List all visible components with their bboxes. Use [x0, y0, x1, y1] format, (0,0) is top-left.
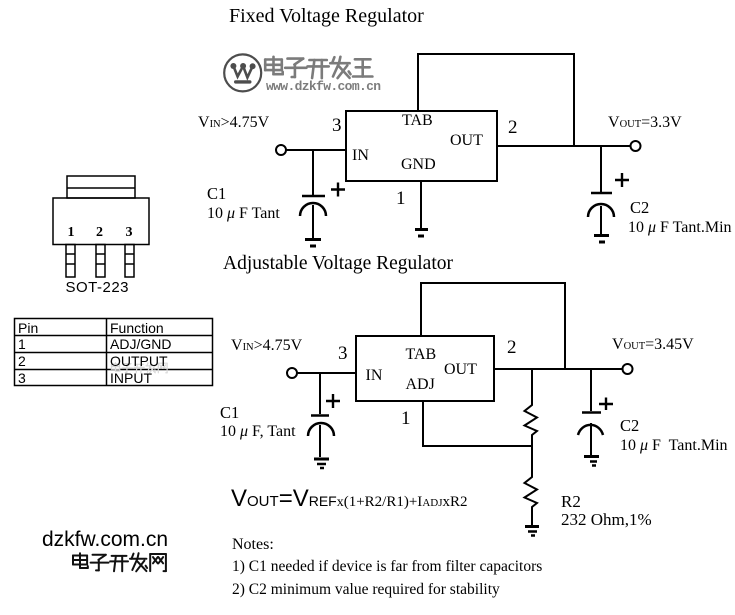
capacitor C2 (fixed) plus	[615, 173, 629, 187]
note 1	[232, 559, 542, 575]
SOT-223 pin 2 lead	[96, 245, 105, 278]
logo url www.dzkfw.com.cn	[266, 80, 380, 93]
formula VOUT	[231, 487, 468, 511]
capacitor C2 (adj) lower stem	[590, 423, 592, 455]
capacitor C1 (fixed) stem	[312, 150, 314, 195]
wire IN input (fixed)	[286, 149, 346, 151]
capacitor C2 (adj) plus	[599, 398, 613, 411]
pin table grid	[15, 319, 213, 386]
notes heading	[232, 537, 274, 553]
pin label 3 (adj)	[338, 344, 348, 363]
node VOUT terminal (adj)	[623, 364, 633, 374]
label C1 (fixed)	[207, 186, 226, 203]
regulator U1 (fixed) body	[346, 111, 497, 181]
label OUT (fixed)	[450, 133, 483, 149]
label VIN (adj)	[231, 338, 302, 354]
faint watermark in table	[112, 363, 168, 373]
wire ADJ pin 1 (adj)	[423, 401, 532, 446]
capacitor C1 (fixed) plus	[331, 183, 345, 197]
label VIN (fixed)	[198, 115, 269, 131]
table header Pin	[18, 321, 38, 335]
pin label 1 (fixed)	[396, 189, 406, 208]
table cell 2	[18, 354, 26, 368]
ground below C2 (fixed)	[594, 234, 609, 237]
capacitor C2 (fixed) plate	[591, 192, 612, 195]
wire IN input (adj)	[297, 372, 357, 374]
capacitor C2 (adj) stem	[590, 369, 592, 411]
node VOUT terminal (fixed)	[631, 141, 641, 151]
capacitor C1 (fixed) lower stem	[312, 205, 314, 238]
wire TAB to OUT (adj)	[421, 283, 565, 369]
wire GND pin 1 (fixed)	[420, 181, 422, 228]
value C2 (adj)	[620, 438, 728, 454]
footer dzkfw.com.cn	[42, 529, 168, 550]
label GND (fixed)	[401, 157, 436, 173]
label R2	[561, 493, 581, 510]
title Fixed Voltage Regulator	[229, 6, 424, 26]
capacitor C2 (adj) arc plate	[578, 425, 603, 435]
logo circle	[224, 54, 261, 91]
value C2 (fixed)	[628, 220, 732, 236]
table cell OUTPUT	[110, 354, 168, 368]
regulator U2 (adjustable) body	[356, 336, 494, 401]
label VOUT (fixed)	[608, 115, 682, 131]
value C1 (adj)	[220, 424, 296, 440]
SOT pin number 2	[96, 226, 103, 240]
wire OUT to terminal (adj)	[494, 368, 623, 370]
SOT-223 package tab	[67, 176, 135, 198]
capacitor C1 (adj) plate	[311, 414, 329, 417]
table cell INPUT	[110, 371, 152, 385]
value R2	[561, 511, 652, 528]
capacitor C2 (fixed) stem	[600, 146, 602, 192]
capacitor C2 (fixed) lower stem	[600, 206, 602, 234]
label C2 (fixed)	[630, 200, 649, 217]
node VIN terminal (adj)	[287, 368, 297, 378]
label SOT-223	[66, 280, 130, 295]
ground at GND pin (fixed)	[415, 228, 428, 231]
SOT pin number 1	[68, 226, 75, 240]
node VIN terminal (fixed)	[276, 145, 286, 155]
capacitor C1 (adj) lower stem	[319, 425, 321, 457]
table header Function	[110, 321, 164, 335]
ground below C1 (fixed)	[305, 238, 321, 241]
title Adjustable Voltage Regulator	[223, 254, 453, 274]
label IN (fixed)	[352, 148, 369, 164]
capacitor C1 (fixed) plate	[302, 195, 325, 198]
pin label 2 (fixed)	[508, 118, 518, 137]
pin label 2 (adj)	[507, 338, 517, 357]
capacitor C1 (fixed) arc plate	[300, 203, 326, 216]
label OUT (adj)	[444, 362, 477, 378]
label TAB (adj)	[406, 347, 437, 363]
table cell 1	[18, 337, 26, 351]
capacitor C2 (adj) plate	[582, 411, 601, 414]
SOT-223 pin 1 lead	[66, 245, 75, 278]
label C1 (adj)	[220, 405, 239, 422]
logo W crown icon	[230, 63, 255, 84]
ground below C2 (adj)	[584, 455, 599, 458]
resistor R2	[525, 446, 538, 525]
SOT pin number 3	[126, 226, 133, 240]
pin label 1 (adj)	[401, 409, 411, 428]
capacitor C1 (adj) stem	[319, 373, 321, 414]
SOT-223 package body	[53, 198, 149, 245]
pin label 3 (fixed)	[332, 116, 342, 135]
note 2	[232, 582, 500, 598]
label ADJ (adj)	[406, 377, 435, 393]
logo text dianzikaifawang	[265, 57, 372, 78]
ground below R2	[525, 525, 539, 528]
label VOUT (adj)	[612, 337, 694, 353]
label IN (adj)	[366, 368, 383, 384]
wire TAB to OUT (fixed)	[418, 54, 574, 146]
ground below C1 (adj)	[314, 458, 329, 461]
capacitor C1 (adj) arc plate	[308, 423, 334, 436]
value C1 (fixed)	[207, 206, 280, 222]
label TAB (fixed)	[402, 113, 433, 129]
wire OUT to terminal (fixed)	[497, 145, 631, 147]
resistor R1	[525, 369, 538, 446]
table cell ADJ/GND	[110, 337, 171, 351]
label C2 (adj)	[620, 418, 639, 435]
table cell 3	[18, 371, 26, 385]
SOT-223 pin 3 lead	[125, 245, 134, 278]
capacitor C2 (fixed) arc plate	[588, 204, 614, 217]
capacitor C1 (adj) plus	[326, 394, 340, 408]
footer text dianzikaifawang (site name)	[73, 553, 166, 571]
